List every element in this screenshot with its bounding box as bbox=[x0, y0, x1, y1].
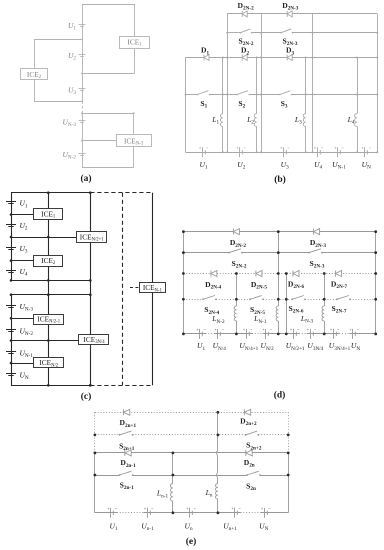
svg-text:(e): (e) bbox=[186, 536, 197, 547]
svg-text:(a): (a) bbox=[80, 173, 91, 184]
svg-text:(b): (b) bbox=[274, 174, 286, 185]
svg-text:(d): (d) bbox=[274, 390, 286, 401]
svg-text:(c): (c) bbox=[81, 391, 92, 402]
